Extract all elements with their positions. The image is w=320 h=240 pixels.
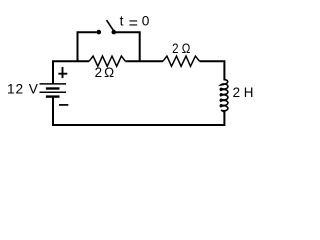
switch S1 node dot left: [97, 30, 102, 35]
svg-text:t: t: [120, 13, 124, 28]
resistor R1: [89, 56, 125, 66]
battery V1 12 V: [40, 84, 67, 97]
svg-text:12 V: 12 V: [7, 82, 39, 97]
wire switch branch right: [116, 32, 140, 61]
label t = 0: [120, 13, 150, 32]
svg-text:2 Ω: 2 Ω: [172, 41, 190, 56]
battery negative plate 2: [46, 95, 60, 97]
inductor L1: [220, 80, 228, 114]
resistor R2: [163, 56, 200, 66]
battery minus sign: [59, 104, 68, 106]
battery positive plate 2: [40, 91, 67, 93]
wire left-top: battery top to top-left corner to R1: [53, 61, 89, 84]
wire R2 to top-right corner down to coil: [200, 61, 225, 80]
svg-text:2 H: 2 H: [233, 85, 254, 100]
svg-text:=: =: [129, 15, 138, 32]
battery positive plate 1: [40, 83, 67, 85]
battery plus sign: [58, 67, 67, 78]
switch S1 node dot right: [112, 30, 117, 35]
switch S1 blade: [107, 20, 114, 30]
wire R1 to R2: [125, 60, 163, 62]
svg-text:0: 0: [142, 13, 150, 28]
wire switch branch left: [78, 32, 97, 61]
wire coil bottom to bottom-right corner to bottom-left, up to battery: [53, 96, 224, 125]
svg-text:2 Ω: 2 Ω: [95, 65, 115, 80]
battery negative plate 1: [46, 87, 60, 89]
